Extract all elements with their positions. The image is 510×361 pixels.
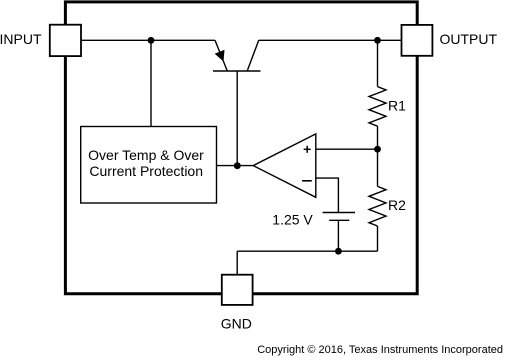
pin box INPUT [50,25,81,56]
IC boundary box [65,2,417,294]
svg-text:R1: R1 [388,98,406,114]
block: Over Temp & Over Current Protection [81,127,217,204]
wire: non-inverting input to feedback node [316,148,378,150]
junction: protection block tap on input rail [148,37,155,44]
op-amp U1 (error amplifier) [253,134,316,197]
voltage reference 1.25 V (battery symbol) [323,213,355,252]
wire: inverting input over and down to reference [316,178,339,212]
pin box OUTPUT [402,25,433,56]
svg-text:OUTPUT: OUTPUT [440,31,498,47]
pin box GND [222,275,253,305]
svg-text:Over Temp & Over: Over Temp & Over [88,147,204,163]
junction: feedback node between R1 and R2 [374,146,381,153]
junction: output node feeding R1 divider [374,37,381,44]
wire: tap down to protection block [150,40,152,126]
wire: riser from ground rail down to GND pin [236,251,238,275]
resistor R2 [369,149,386,251]
transistor Q1 (PNP pass element) [213,40,261,165]
resistor R1 [369,40,386,149]
junction: Q1 base drive node [234,162,241,169]
svg-text:1.25 V: 1.25 V [272,211,313,227]
wire: Q1 collector to OUTPUT pin [259,39,402,41]
svg-text:GND: GND [221,316,252,332]
svg-text:Current Protection: Current Protection [89,163,203,179]
wire: input rail from INPUT pin to Q1 emitter [81,39,215,41]
svg-text:Copyright © 2016, Texas Instru: Copyright © 2016, Texas Instruments Inco… [257,344,503,356]
svg-text:INPUT: INPUT [0,31,42,47]
svg-text:R2: R2 [388,197,406,213]
junction: reference ground node [335,248,342,255]
wire: protection block output to error-amp output node [217,165,254,167]
wire: ground rail [237,250,377,252]
